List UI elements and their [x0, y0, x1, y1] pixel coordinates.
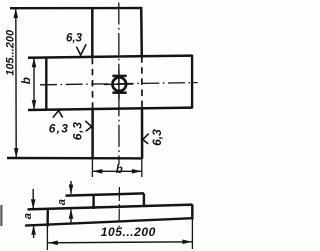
boss right edge solid upper [140, 7, 143, 56]
boss right extension down for b [141, 159, 143, 177]
dimension line b bottom [93, 170, 142, 172]
side view boss right edge [143, 193, 145, 206]
plate top edge with left extension for b [28, 56, 192, 58]
boss right edge hidden dashed [141, 56, 143, 108]
side view plate top edge with left extension [28, 205, 193, 210]
side view boss left edge [92, 195, 94, 209]
dimension line b left [33, 58, 35, 110]
dimension a plate thickness: upper stub with down arrow [32, 189, 34, 209]
dimension line 105...200 bottom [48, 242, 192, 243]
roughness check mark top [76, 44, 86, 55]
dimension a boss height: upper stub with down arrow [70, 181, 72, 194]
svg-text:6,3: 6,3 [66, 33, 83, 45]
boss left edge hidden dashed [91, 58, 93, 110]
side view center line [118, 187, 120, 227]
hole top tick [112, 75, 126, 78]
boss left extension down for b [91, 159, 93, 178]
side view right extension down [191, 220, 193, 250]
svg-text:b: b [116, 164, 123, 176]
svg-text:a: a [22, 213, 34, 219]
side view plate right end [191, 205, 194, 220]
side view plate left end [46, 210, 49, 227]
vertical center line [118, 3, 120, 165]
boss top edge with left extension line [10, 7, 142, 10]
boss left edge solid lower [91, 110, 94, 159]
dimension a plate thickness: lower stub with up arrow [33, 225, 35, 238]
svg-text:a: a [56, 199, 68, 205]
svg-text:6,3: 6,3 [71, 121, 85, 140]
svg-text:6,3: 6,3 [49, 121, 69, 135]
dimension line 105...200 left [15, 9, 17, 158]
svg-text:105...200: 105...200 [101, 225, 156, 239]
boss bottom edge with left extension line [7, 157, 142, 160]
boss right edge solid lower [141, 108, 144, 159]
hole circle [113, 77, 127, 91]
roughness check mark pointing left [143, 134, 149, 144]
plate right edge [191, 55, 193, 109]
side view plate bottom edge with left extension [25, 218, 192, 225]
horizontal center line [40, 83, 198, 85]
boss left edge solid upper [91, 7, 94, 58]
roughness check mark lower-left (inverted) [53, 111, 63, 118]
svg-text:b: b [21, 77, 33, 84]
svg-text:6,3: 6,3 [150, 129, 164, 146]
edge smudge artifact [0, 205, 2, 226]
svg-text:105...200: 105...200 [5, 29, 17, 76]
plate left edge [45, 57, 47, 111]
dimension a boss height: lower stub with up arrow [70, 210, 72, 224]
side view boss top edge with left extension for a [66, 193, 145, 195]
hole center cross vertical solid segment [118, 70, 120, 99]
hole bottom tick [112, 91, 126, 94]
plate bottom edge with left extension for b [28, 108, 192, 110]
side view left extension down [46, 227, 48, 251]
hole center cross horizontal solid segment [104, 83, 133, 85]
roughness check mark pointing right [85, 121, 91, 131]
